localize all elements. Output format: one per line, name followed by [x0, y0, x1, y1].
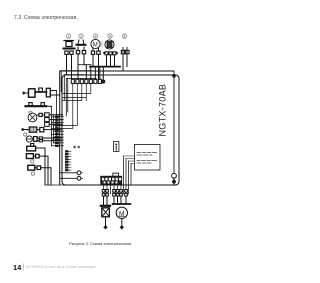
left chain row F: connector — [27, 144, 45, 186]
svg-text:5: 5 — [124, 34, 126, 38]
left chain row G — [26, 154, 48, 185]
bottom right pump group — [113, 196, 131, 230]
left chain row C: fan motor — [28, 111, 62, 126]
connector T4 motor with 3pin — [100, 34, 117, 80]
small internal component — [114, 142, 119, 152]
connector T2 — [76, 34, 86, 80]
inside-board pad routing wires — [63, 84, 91, 129]
svg-text:1: 1 — [68, 34, 70, 38]
footer gray text — [26, 265, 96, 269]
svg-text:3: 3 — [95, 34, 97, 38]
bottom pins squares — [102, 190, 127, 197]
connector T1 — [64, 34, 75, 80]
connector T3 motor — [91, 34, 103, 80]
nested corner wires top-left — [61, 71, 96, 116]
junction dot bottom right — [172, 180, 176, 184]
left chain row D: hatched box — [21, 127, 62, 132]
board NGTX-70AB outline — [62, 75, 179, 185]
wires from big box down to bottom edge — [124, 156, 132, 194]
svg-text:2: 2 — [80, 34, 82, 38]
terminal circle right — [172, 173, 177, 178]
left chain row E: sensor circle — [24, 133, 62, 142]
connector T5 two pins — [121, 34, 129, 71]
left chain row H — [28, 165, 51, 185]
wire W1 long bus to right — [60, 71, 174, 173]
inner pad column on board left — [65, 150, 68, 171]
bottom left plug group — [101, 196, 110, 230]
top bus wires — [78, 64, 91, 66]
footer page number — [13, 263, 21, 272]
svg-text:NGTX-70AB: NGTX-70AB — [157, 84, 167, 137]
top pads row on board — [71, 79, 101, 83]
title — [14, 15, 78, 21]
bottom edge joining wires — [45, 184, 174, 186]
two small diamond markers — [73, 145, 80, 148]
bottom connector block — [100, 156, 134, 194]
junction dot top right — [172, 74, 176, 78]
left chain row B: 2-pin terminal — [26, 103, 52, 107]
left chain row A: plug with diamond — [22, 88, 60, 97]
svg-text:M: M — [93, 43, 98, 49]
two tiny indicator symbols — [77, 171, 82, 180]
svg-text:4: 4 — [109, 34, 111, 38]
comb wires into board left edge — [52, 117, 64, 146]
caption — [0, 241, 200, 246]
left vertical bundle — [51, 106, 53, 146]
internal big box with text — [135, 145, 161, 171]
wires to indicator circles — [60, 173, 77, 179]
